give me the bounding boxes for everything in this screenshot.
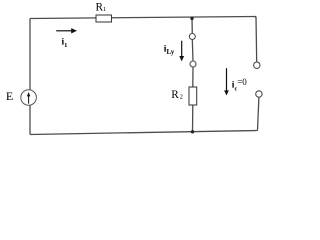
svg-text:E: E	[6, 89, 13, 103]
svg-text:R1: R1	[96, 1, 107, 13]
svg-text:i1: i1	[62, 37, 68, 49]
svg-text:iLy: iLy	[164, 44, 175, 56]
svg-text:ic=0: ic=0	[232, 77, 247, 92]
svg-text:R2: R2	[171, 89, 183, 101]
